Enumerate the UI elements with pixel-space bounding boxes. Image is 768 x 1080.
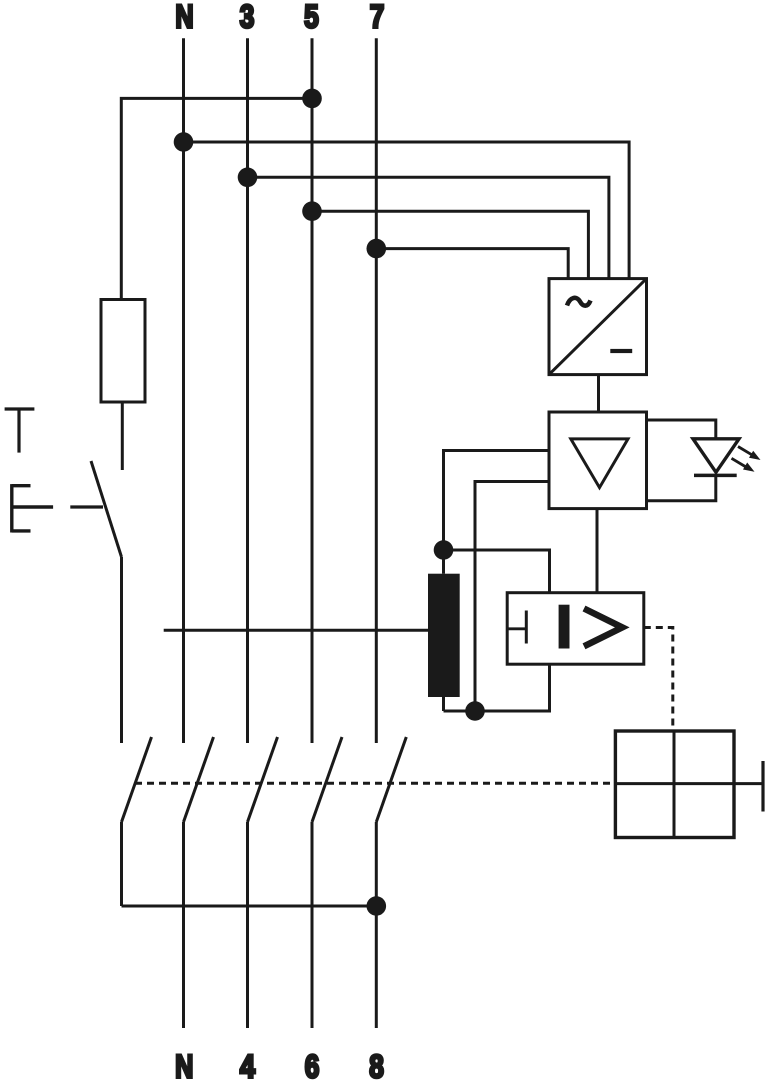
node: CT secondary top junction [434,540,454,560]
wire: supply tap from line N to rectifier [184,142,630,279]
node: junction on line N [174,132,194,152]
wire: line 5 vertical [311,38,314,743]
rectifier U1 diagonal divider [549,279,647,375]
wire: line N vertical [182,38,185,743]
LED emission arrow 2 [732,458,755,472]
trip coil K1 armature end bar [761,761,764,812]
wire: amplifier lower sense lead to bottom node [475,482,549,712]
test button linkage [70,505,103,508]
wire: amplifier bottom to overcurrent release [596,509,599,593]
amplifier U2 triangle symbol [571,439,628,488]
wire: primary conductor through CT core [164,629,428,632]
wire: LED loop bottom [647,476,716,501]
wire: line 8 lower vertical [375,822,378,1028]
wire: test contact to pole 0 [120,557,123,743]
U3 input bar [525,611,528,644]
node: junction on line 5 (supply) [302,201,322,221]
wire: top node to overcurrent relay I> [444,550,550,593]
node: CT secondary bottom junction [465,701,485,721]
trip coil K1 box [615,731,734,838]
svg-text:3: 3 [240,0,255,34]
wire: pole 0 bottom connection to line 8 [122,905,377,908]
test resistor R [101,300,145,403]
overcurrent release U3 box [507,593,644,665]
node: junction on line 7 [367,239,387,259]
U3 input stub [507,627,525,630]
wire: supply tap from line 5 to rectifier [312,211,588,278]
trip coil K1 armature line [615,782,763,785]
node: junction on line 3 [238,168,258,188]
main contact blade pole 4 [248,737,278,822]
wire: line 6 lower vertical [311,822,314,1028]
wire: CT secondary top stub [442,550,445,574]
wire: rectifier to amplifier [597,375,600,412]
dashed trip link from U3 to trip coil [644,628,673,732]
svg-text:6: 6 [305,1048,320,1080]
current transformer CT core (black bar) [428,574,460,697]
rectifier U1 DC minus symbol [610,349,632,353]
wire: line 4 lower vertical [246,822,249,1028]
wire: bottom loop to overcurrent relay I> [444,664,550,711]
wire: resistor to test contact [121,402,124,470]
wire: pole 0 lower [120,822,123,906]
node: junction on line 5 (test tap) [302,89,322,109]
svg-text:N: N [175,0,193,34]
wire: supply tap from line 7 to rectifier [376,249,568,279]
LED emission arrow 1 [738,447,761,461]
dashed mechanical trip linkage [135,782,615,785]
main contact blade pole 0 [122,737,152,822]
svg-text:4: 4 [240,1048,255,1080]
test contact blade [91,461,122,557]
test button contact bracket [12,484,53,532]
wire: amplifier upper sense lead to CT node [444,451,550,551]
LED cathode bar [694,474,737,478]
main contact blade pole 8 [376,737,406,822]
LED indicator diode triangle [693,439,739,473]
wire: test tap from line 5 to resistor [121,98,312,299]
wire: line 3 vertical [246,38,249,743]
svg-text:8: 8 [369,1048,384,1080]
wire: CT secondary bottom stub [442,697,445,711]
rectifier U1 AC tilde symbol [567,298,591,306]
amplifier / trip electronics U2 box [549,412,647,509]
node: junction on line 8 [367,896,387,916]
wire: amplifier to LED loop top [647,420,716,440]
main contact blade pole N [184,737,214,822]
trip coil K1 vertical divider [673,731,676,838]
svg-text:N: N [175,1048,193,1080]
rectifier / power supply U1 box [549,279,647,375]
wire: line 7 vertical [375,38,378,743]
svg-text:7: 7 [370,0,385,34]
wire: supply tap from line 3 to rectifier [248,177,609,278]
test button T actuator [5,409,35,453]
U3 label > chevron [584,609,622,647]
U3 label I bar [559,605,570,649]
svg-text:5: 5 [304,0,319,34]
wire: line N lower vertical [182,822,185,1028]
main contact blade pole 6 [312,737,342,822]
